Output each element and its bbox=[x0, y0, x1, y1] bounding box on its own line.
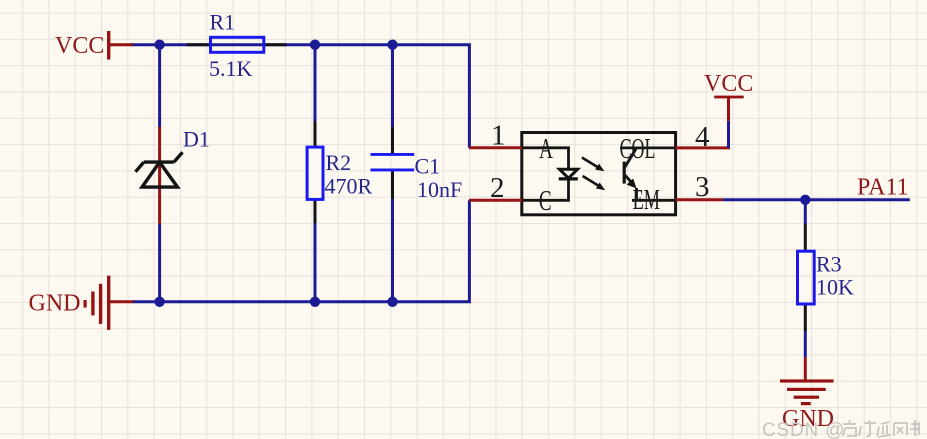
resistor R3 bbox=[798, 224, 855, 331]
opto internal transistor bbox=[620, 134, 676, 216]
svg-text:C1: C1 bbox=[415, 153, 441, 178]
wire PA11 net bbox=[723, 174, 910, 224]
svg-text:2: 2 bbox=[490, 172, 505, 204]
node VCC-left port label bbox=[55, 31, 133, 60]
svg-text:D1: D1 bbox=[183, 126, 210, 151]
svg-text:1: 1 bbox=[491, 120, 506, 152]
svg-text:10nF: 10nF bbox=[417, 177, 462, 202]
svg-text:10K: 10K bbox=[816, 275, 854, 300]
opto light arrow 2 bbox=[583, 176, 606, 190]
svg-text:5.1K: 5.1K bbox=[209, 56, 253, 81]
opto internal cathode wire C bbox=[522, 179, 569, 217]
junction top R2 bbox=[310, 40, 320, 50]
wire top rail VCC node bbox=[130, 45, 471, 302]
junction bottom R2 bbox=[310, 297, 320, 307]
svg-text:R3: R3 bbox=[816, 252, 842, 277]
wire D1 column bbox=[158, 46, 161, 300]
svg-text:VCC: VCC bbox=[55, 33, 104, 59]
wire R3 to ground bbox=[804, 331, 807, 357]
svg-text:PA11: PA11 bbox=[857, 174, 909, 200]
junction top VCC/D1 bbox=[154, 40, 164, 50]
resistor R2 bbox=[307, 46, 372, 300]
diode D1 zener bbox=[136, 126, 210, 224]
junction bottom C1 bbox=[387, 297, 397, 307]
node VCC-right power port bbox=[704, 71, 753, 148]
junction bottom D1 bbox=[154, 297, 164, 307]
svg-text:COL: COL bbox=[620, 134, 656, 165]
svg-text:GND: GND bbox=[29, 290, 81, 316]
svg-text:C: C bbox=[539, 187, 552, 217]
opto internal anode wire A bbox=[522, 135, 569, 170]
capacitor C1 bbox=[371, 46, 463, 300]
svg-text:4: 4 bbox=[695, 121, 710, 153]
svg-text:3: 3 bbox=[695, 171, 710, 203]
ground GND-right earth symbol bbox=[780, 357, 834, 432]
svg-text:EM: EM bbox=[633, 185, 660, 216]
svg-text:R1: R1 bbox=[210, 10, 236, 35]
svg-text:470R: 470R bbox=[325, 174, 373, 199]
opto internal LED bbox=[559, 169, 578, 179]
watermark CSDN bbox=[762, 420, 920, 439]
optocoupler U1 box bbox=[522, 133, 676, 215]
svg-text:VCC: VCC bbox=[704, 71, 753, 97]
svg-text:CSDN @: CSDN @ bbox=[762, 420, 845, 439]
pin 1 wire bbox=[469, 120, 522, 152]
svg-text:A: A bbox=[539, 135, 553, 165]
resistor R1 bbox=[187, 10, 287, 81]
svg-text:R2: R2 bbox=[326, 150, 352, 175]
pin 3 wire bbox=[676, 171, 723, 203]
opto light arrow 1 bbox=[582, 158, 605, 172]
pin 4 wire bbox=[676, 121, 731, 153]
ground GND-left power symbol bbox=[29, 276, 134, 330]
pin 2 wire bbox=[469, 172, 522, 204]
junction PA11/R3 bbox=[800, 195, 810, 205]
junction top C1 bbox=[387, 40, 397, 50]
